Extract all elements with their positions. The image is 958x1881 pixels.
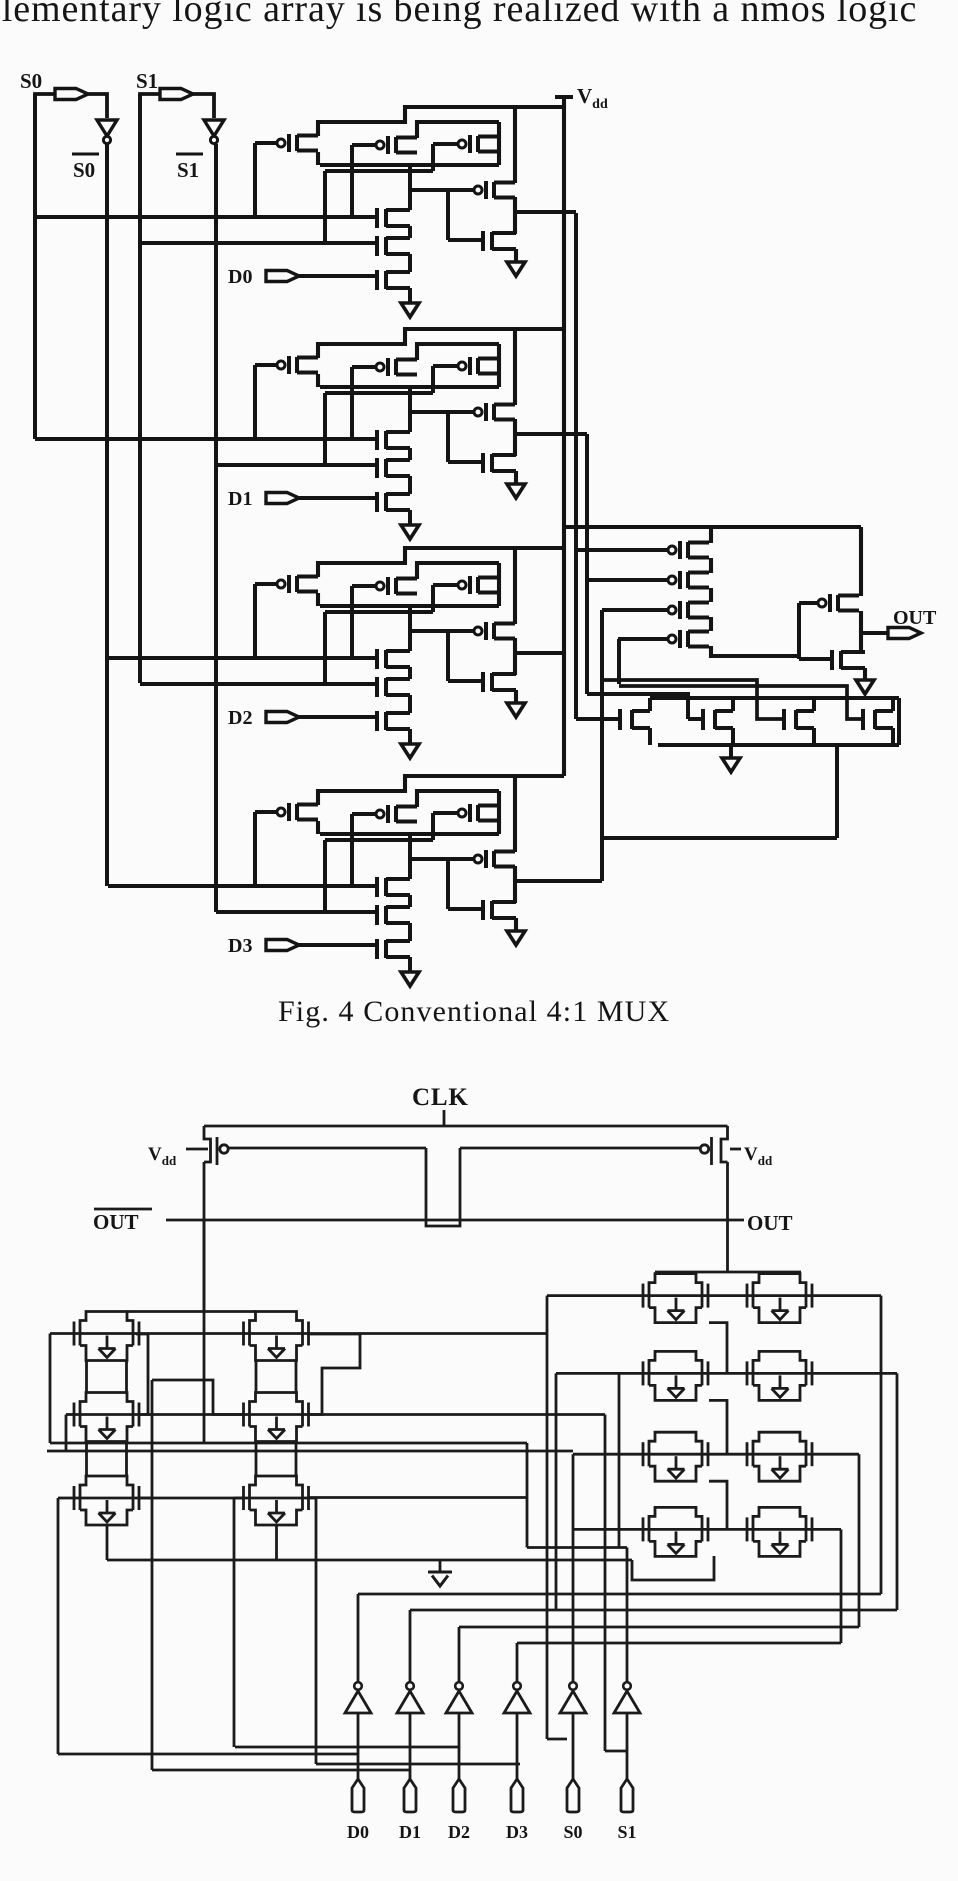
wire right block row1 channel line — [643, 1294, 812, 1297]
wire CLK gate rail left — [228, 1147, 426, 1150]
wire row3c2 right gate lead — [309, 1497, 316, 1500]
wire inv pmos supply cell3 — [513, 776, 517, 852]
wire row3c2 bottom drop — [275, 1525, 278, 1560]
svg-text:D0: D0 — [347, 1822, 369, 1842]
nmos N2 cell0 — [375, 236, 379, 256]
pmos stack P4 — [668, 635, 676, 643]
svg-text:S0: S0 — [563, 1822, 582, 1842]
pin D2 — [453, 1779, 465, 1812]
inverter D3 — [513, 1682, 521, 1690]
nmos inverter cell0 — [481, 231, 485, 251]
pass transistor right block r2c2 — [746, 1361, 749, 1385]
wire inv nmos gate riser cell3 — [446, 859, 450, 909]
wire P2 gate lead cell0 — [352, 143, 376, 147]
bus D1 direct vertical — [151, 1380, 154, 1770]
pin S0 — [567, 1779, 579, 1812]
nmos inverter cell2 — [481, 672, 485, 692]
pin D1 — [266, 493, 299, 504]
svg-text:D3: D3 — [506, 1822, 528, 1842]
wire row3c1 right gate lead — [139, 1497, 152, 1500]
pmos P2 cell3 — [376, 810, 384, 818]
wire D2' riser — [458, 1627, 461, 1682]
wire N3 to ground cell0 — [408, 288, 412, 303]
wire D0 pin feed — [58, 1753, 358, 1756]
wire N1-N2 link cell3 — [408, 895, 412, 907]
wire N1-N2 link cell2 — [408, 667, 412, 679]
wire right block row4 channel line — [643, 1528, 812, 1531]
wire cell0 output — [515, 210, 576, 214]
ground fig5 — [428, 1572, 452, 1586]
wire inv input cell2 — [410, 629, 474, 633]
wire N3 to ground cell3 — [408, 957, 412, 972]
wire P3 gate riser cell2 — [431, 585, 435, 612]
wire N1-N2 link cell0 — [408, 226, 412, 238]
wire nmos drain cell0 — [408, 165, 412, 210]
pmos P1 cell1 — [277, 361, 285, 369]
wire left row1 channel extension — [309, 1332, 547, 1335]
wire out inv nmos gate lead — [799, 657, 832, 661]
svg-text:D2: D2 — [228, 707, 252, 729]
ground inverter cell1 — [507, 484, 525, 498]
wire CLK stem — [443, 1110, 446, 1126]
wire inner box riser to T2 cell2 — [323, 612, 327, 684]
wire D0 to T3 gate — [299, 274, 377, 278]
wire nand T3 gate feed — [602, 680, 784, 719]
wire inner box riser to T2 cell0 — [323, 171, 327, 243]
wire OUT — [861, 631, 888, 635]
wire inv nmos to ground cell1 — [514, 471, 518, 484]
wire D2 to T3 gate — [299, 715, 377, 719]
nmos N2 cell2 — [375, 677, 379, 697]
wire S0 pin stem — [572, 1713, 575, 1779]
wire N2-N3 link cell0 — [408, 254, 412, 272]
wire S0' riser — [572, 1454, 575, 1682]
wire row2 right lead — [812, 1372, 897, 1375]
wire pmos bottom rail cell1 — [320, 385, 499, 389]
wire S1' riser — [626, 1548, 629, 1683]
pmos P3 cell2 — [458, 581, 466, 589]
wire S-line to T1 gate cell1 — [35, 437, 377, 441]
wire row2 feed riser — [555, 1373, 558, 1610]
wire nand T4 gate feed — [619, 686, 863, 719]
wire S0 pin left — [35, 94, 55, 155]
wire S-line to T1 gate cell3 — [108, 884, 377, 888]
svg-text:OUT: OUT — [747, 1211, 793, 1235]
wire column link — [255, 1442, 258, 1477]
svg-text:elementary logic array is bein: elementary logic array is being realized… — [0, 0, 917, 30]
wire row1 right wrap — [880, 1296, 883, 1594]
pmos stack P3 — [668, 606, 676, 614]
wire P3 gate lead cell0 — [433, 142, 458, 146]
inverter S1 -> S1bar — [204, 120, 224, 136]
wire row2 gate feed — [556, 1372, 643, 1375]
wire right chain link 3 — [709, 1481, 727, 1529]
wire nmos row top rail — [650, 696, 899, 700]
pin OUT — [888, 628, 921, 639]
wire inner box cell2 — [325, 610, 433, 614]
pmos output inverter U-out — [818, 599, 826, 607]
ground inverter cell0 — [507, 262, 525, 276]
wire column link — [125, 1361, 128, 1392]
wire S1 pin left — [140, 94, 160, 155]
ground cell0 — [401, 303, 419, 317]
pass transistor right block r2c1 — [642, 1361, 645, 1385]
wire D2' rail — [459, 1626, 859, 1629]
wire ground stem — [439, 1560, 442, 1572]
wire row1 right lead — [812, 1294, 881, 1297]
wire pstack link23 — [709, 588, 713, 602]
pin D2 — [266, 712, 299, 723]
pmos inverter cell3 — [474, 855, 482, 863]
ground cell2 — [401, 744, 419, 758]
wire left block row1 channel line — [74, 1332, 309, 1335]
wire P1 gate riser cell3 — [253, 812, 257, 886]
wire bus1 riser — [526, 1443, 529, 1548]
nmos N2 cell3 — [375, 905, 379, 925]
wire inner box riser to T2 cell1 — [323, 393, 327, 465]
wire row3c2 left gate lead — [234, 1497, 243, 1500]
overline OUTbar — [94, 1208, 152, 1211]
bus S0 pin vertical — [546, 1296, 549, 1739]
wire final stage top rail — [564, 525, 861, 529]
wire inv input cell3 — [410, 857, 474, 861]
rail S0bar vertical — [105, 144, 109, 886]
pmos stack P2 — [668, 576, 676, 584]
pmos P1 cell0 — [277, 139, 285, 147]
wire P3 gate lead cell3 — [433, 811, 458, 815]
wire inv nmos to ground cell0 — [514, 249, 518, 262]
wire P2 gate lead cell1 — [352, 365, 376, 369]
pmos P3 cell3 — [458, 809, 466, 817]
pmos P1 cell3 — [277, 808, 285, 816]
wire P2 gate riser cell2 — [350, 586, 354, 658]
wire column link — [125, 1442, 128, 1477]
wire inv out node cell3 — [513, 866, 517, 903]
pass transistor left block r1c2 — [242, 1322, 245, 1346]
bus line lower — [47, 1450, 573, 1453]
nmos N3 cell2 — [375, 711, 379, 731]
inverter D0 — [354, 1682, 362, 1690]
wire pmos bottom rail cell3 — [320, 832, 499, 836]
svg-text:S1: S1 — [177, 158, 199, 182]
wire cell2 output — [515, 651, 564, 655]
wire left block top rail — [127, 1310, 256, 1313]
wire row2c1 gate feed — [66, 1413, 74, 1416]
pin D1 — [404, 1779, 416, 1812]
wire CLK top rail — [204, 1125, 728, 1128]
wire inv pmos supply cell0 — [513, 107, 517, 183]
pass transistor right block r3c1 — [642, 1442, 645, 1466]
svg-text:S1: S1 — [136, 69, 158, 93]
pass transistor right block r4c1 — [642, 1517, 645, 1541]
pass transistor right block r4c2 — [746, 1517, 749, 1541]
ground output inverter — [856, 680, 874, 694]
wire D1' rail — [410, 1609, 897, 1612]
pmos P3 cell0 — [458, 140, 466, 148]
wire D0 pin stem — [357, 1713, 360, 1779]
nmos row transistor M1 — [618, 709, 622, 730]
bus cell2 output riser — [617, 639, 621, 684]
pin S1 — [160, 89, 193, 100]
wire nmos drain cell2 — [408, 606, 412, 651]
wire pstack top link — [709, 527, 713, 543]
wire D0' riser — [357, 1594, 360, 1682]
wire pmos bottom rail cell0 — [320, 163, 499, 167]
pmos inverter cell2 — [474, 627, 482, 635]
svg-text:S0: S0 — [20, 69, 42, 93]
wire bus1 to nand T2 gate — [587, 694, 688, 719]
wire P1 gate lead cell3 — [255, 810, 277, 814]
wire pstack gate lead 2 — [587, 578, 668, 582]
wire col2 right gates link — [309, 1334, 360, 1415]
wire P1 gate lead cell0 — [255, 141, 277, 145]
wire D1 pin stem — [409, 1713, 412, 1779]
wire row3 extension link — [527, 1546, 627, 1549]
nmos N3 cell1 — [375, 492, 379, 512]
wire P1 gate riser cell2 — [253, 584, 257, 658]
wire row3c1 bottom drop — [106, 1525, 109, 1560]
svg-text:OUT: OUT — [893, 607, 937, 629]
pin D3 — [511, 1779, 523, 1812]
wire S-line to T1 gate cell2 — [108, 656, 377, 660]
wire inv nmos gate riser cell2 — [446, 631, 450, 681]
wire N3 to ground cell2 — [408, 729, 412, 744]
wire inv nmos gate riser cell0 — [446, 190, 450, 240]
wire row4 right wrap — [840, 1529, 843, 1643]
wire inv nmos gate lead cell3 — [448, 907, 483, 911]
wire out inv nmos to gnd — [863, 668, 867, 680]
pmos P2 cell2 — [376, 582, 384, 590]
pmos inverter cell0 — [474, 186, 482, 194]
Vdd top tick — [555, 95, 573, 99]
pin S1 — [621, 1779, 633, 1812]
wire P1 source drop cell0 — [316, 152, 320, 165]
wire pmos top rail cell1 — [318, 329, 564, 358]
wire S0' to row3 gate — [573, 1453, 643, 1456]
wire inv input cell1 — [410, 410, 474, 414]
wire inv nmos gate lead cell0 — [448, 238, 483, 242]
wire S-line to T2 gate cell1 — [216, 463, 377, 467]
wire pmos top rail right cell3 — [417, 791, 499, 807]
wire P2 gate riser cell3 — [350, 814, 354, 886]
wire P1 source drop cell3 — [316, 821, 320, 834]
wire P3 gate riser cell3 — [431, 813, 435, 840]
wire OUTbar to bus — [203, 1220, 206, 1443]
wire nand node return — [602, 836, 837, 840]
wire P1 gate lead cell1 — [255, 363, 277, 367]
wire N3 to ground cell1 — [408, 510, 412, 525]
wire ground rail to right block — [632, 1556, 714, 1580]
wire out inv node vertical — [859, 611, 863, 652]
wire P2 gate lead cell2 — [352, 584, 376, 588]
wire S1 stem jog — [605, 1750, 627, 1753]
wire inv nmos gate riser cell1 — [446, 412, 450, 462]
wire out inverter input riser — [797, 603, 801, 659]
nmos N1 cell0 — [375, 208, 379, 228]
wire nmos row ground stem — [729, 745, 733, 758]
svg-text:D2: D2 — [448, 1822, 470, 1842]
pass transistor left block r1c1 — [73, 1322, 76, 1346]
svg-text:D3: D3 — [228, 935, 252, 957]
wire OUT drain vertical — [726, 1162, 729, 1272]
bus D2 direct vertical — [233, 1498, 236, 1747]
inverter S1 — [623, 1682, 631, 1690]
wire nmos drain cell3 — [408, 834, 412, 879]
wire inv pmos supply cell2 — [513, 548, 517, 624]
pmos stack P1 — [668, 546, 676, 554]
wire nmos row right edge — [897, 698, 901, 745]
wire P3 drain riser cell1 — [497, 344, 501, 387]
bus S1 pin vertical — [604, 1415, 607, 1752]
nmos N3 cell3 — [375, 939, 379, 959]
wire right chain link 2 — [709, 1400, 727, 1454]
wire D1 to T3 gate — [299, 496, 377, 500]
wire inv input cell0 — [410, 188, 474, 192]
wire left row2 channel extension — [309, 1413, 605, 1416]
wire inner box cell0 — [325, 169, 433, 173]
pass transistor right block r3c2 — [746, 1442, 749, 1466]
wire left row3 channel extension — [309, 1496, 527, 1499]
svg-text:CLK: CLK — [412, 1084, 469, 1111]
wire CLK notch — [426, 1148, 460, 1226]
wire pmos top rail right cell1 — [417, 344, 499, 360]
overline S1bar — [176, 153, 203, 156]
wire pstack link34 — [709, 617, 713, 631]
svg-text:D1: D1 — [228, 488, 252, 510]
wire D0' rail — [358, 1593, 881, 1596]
svg-text:D1: D1 — [399, 1822, 421, 1842]
inverter S0 — [569, 1682, 577, 1690]
wire inner box cell1 — [325, 391, 433, 395]
wire OUT horizontal — [461, 1219, 744, 1222]
wire pstack gate lead 1 — [576, 548, 668, 552]
wire P3 gate lead cell2 — [433, 583, 458, 587]
wire row1 gate feed — [547, 1294, 643, 1297]
nmos row transistor M3 — [782, 709, 786, 730]
pin D3 — [266, 940, 299, 951]
wire row1c1 gate feed — [50, 1332, 74, 1335]
wire N2-N3 link cell3 — [408, 923, 412, 941]
overline S0bar — [72, 153, 99, 156]
pass transistor left block r3c2 — [242, 1486, 245, 1510]
wire N1-N2 link cell1 — [408, 448, 412, 460]
wire column link — [85, 1361, 88, 1392]
inverter D1 — [406, 1682, 414, 1690]
ground inverter cell3 — [507, 931, 525, 945]
wire S-line to T2 gate cell0 — [140, 241, 377, 245]
wire right block row2 channel line — [643, 1372, 812, 1375]
wire P1 gate riser cell1 — [253, 365, 257, 439]
wire pstack bottom to inv input — [711, 646, 799, 656]
wire P2 gate riser cell1 — [350, 367, 354, 439]
ground cell3 — [401, 972, 419, 986]
ground inverter cell2 — [507, 703, 525, 717]
wire D3 to T3 gate — [299, 943, 377, 947]
wire row3 right lead — [812, 1453, 859, 1456]
pass transistor right block r1c2 — [746, 1284, 749, 1308]
wire S-line to T2 gate cell3 — [216, 910, 377, 914]
rail S1 vertical — [138, 94, 142, 683]
wire pstack gate lead 4 — [618, 637, 668, 641]
wire D3' rail — [517, 1642, 841, 1645]
wire inner box cell3 — [325, 838, 433, 842]
bus cell3 output vertical — [600, 610, 604, 881]
wire P2 gate lead cell3 — [352, 812, 376, 816]
pin D0 — [266, 271, 299, 282]
pin D0 — [352, 1779, 364, 1812]
wire row2 right wrap — [896, 1373, 899, 1610]
wire nand T2 gate lead — [688, 717, 703, 721]
wire nand node riser — [835, 745, 839, 838]
wire P3 gate riser cell0 — [431, 144, 435, 171]
wire D3 feed riser — [315, 1560, 318, 1764]
wire P1 source drop cell2 — [316, 593, 320, 606]
wire column link — [295, 1442, 298, 1477]
wire OUTbar drain vertical — [203, 1162, 206, 1311]
wire pmos top rail right cell0 — [417, 122, 499, 138]
wire pmos top rail cell3 — [318, 776, 564, 805]
wire inv out node cell1 — [513, 419, 517, 456]
nmos row transistor M4 — [861, 709, 865, 730]
pass transistor left block r2c2 — [242, 1403, 245, 1427]
nmos N1 cell1 — [375, 430, 379, 450]
wire nand T1 gate lead — [576, 717, 620, 721]
wire row2 feed riser to bus — [65, 1415, 68, 1452]
svg-text:D0: D0 — [228, 266, 252, 288]
rail S0 vertical — [33, 94, 37, 439]
wire column link — [295, 1361, 298, 1392]
nmos inverter cell3 — [481, 900, 485, 920]
nmos inverter cell1 — [481, 453, 485, 473]
nmos N1 cell3 — [375, 877, 379, 897]
nmos N3 cell0 — [375, 270, 379, 290]
wire S1 pin to inverter — [193, 94, 214, 118]
wire inv out node cell0 — [513, 197, 517, 234]
ground cell1 — [401, 525, 419, 539]
wire pstack gate lead 3 — [602, 608, 668, 612]
ground nmos row — [722, 758, 740, 772]
inverter D2 — [455, 1682, 463, 1690]
wire row4 right lead — [812, 1528, 841, 1531]
wire S-line to T1 gate cell0 — [35, 215, 377, 219]
wire inv nmos to ground cell2 — [514, 690, 518, 703]
wire column link — [255, 1361, 258, 1392]
wire S1 pin stem — [626, 1713, 629, 1779]
wire right chain link 1 — [709, 1323, 727, 1374]
svg-text:Fig. 4 Conventional 4:1 MUX: Fig. 4 Conventional 4:1 MUX — [278, 995, 670, 1028]
wire cell3 output — [515, 879, 602, 883]
pass transistor left block r3c1 — [73, 1486, 76, 1510]
wire right block top rail — [655, 1271, 801, 1274]
wire D2 pin feed — [235, 1746, 459, 1749]
bus D0 direct vertical — [57, 1498, 60, 1754]
wire row2c2 left gate feed — [152, 1380, 243, 1415]
wire S0 pin to inverter — [88, 94, 107, 118]
wire N2-N3 link cell1 — [408, 476, 412, 494]
pmos P1 cell2 — [277, 580, 285, 588]
svg-text:S0: S0 — [73, 158, 95, 182]
wire D3 pin feed — [316, 1763, 520, 1766]
wire P3 drain riser cell2 — [497, 563, 501, 606]
wire cell1 output — [515, 432, 587, 436]
wire inner box riser to T2 cell3 — [323, 840, 327, 912]
wire out inv pmos supply — [859, 527, 863, 596]
bus line upper — [50, 1442, 527, 1445]
svg-text:OUT: OUT — [93, 1210, 139, 1234]
wire pmos top rail cell2 — [318, 548, 564, 577]
wire N2-N3 link cell2 — [408, 695, 412, 713]
wire pmos bottom rail cell2 — [320, 604, 499, 608]
